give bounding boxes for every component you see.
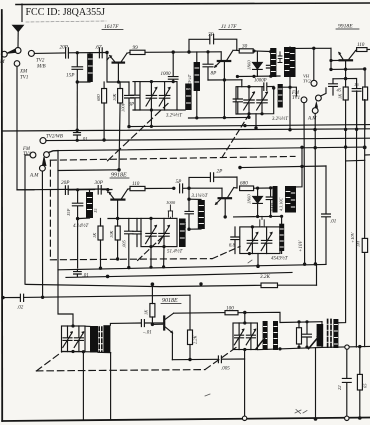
svg-text:.67: .67 (95, 45, 102, 51)
slug tuning arrow (309, 335, 320, 349)
capacitor 8P (203, 52, 217, 80)
variable capacitor (bottom-left trimmer B) (74, 326, 84, 352)
svg-text:1000: 1000 (166, 200, 176, 205)
node junction dot (106, 275, 110, 279)
capacitor .01 (mid bus) (74, 270, 89, 279)
node switch contact M (1, 51, 7, 57)
transformer bottom-right (black cores w/ slug arrow) (317, 319, 339, 348)
wire box3 to transformer top link (85, 325, 90, 327)
wire top page rule (16, 3, 370, 5)
wire R99 to Q2 base (145, 51, 221, 54)
node terminal circle (open, det out) (345, 345, 349, 349)
node junction dot (149, 217, 152, 220)
capacitor 15P (66, 53, 83, 82)
capacitor (bottom right bypass) (303, 322, 312, 347)
inductor stage2 input coil (black core) (78, 190, 93, 219)
resistor 100 (225, 306, 238, 315)
wire AGC bus with .02 cap (2, 297, 19, 299)
wire right rail D (B+ feed) (355, 91, 357, 347)
node contact VH TV2 circle (311, 80, 317, 86)
svg-text:1N60: 1N60 (247, 194, 252, 204)
node junction dot (344, 128, 347, 131)
inductor osc coil (black core, below-right of box) (177, 84, 192, 111)
inductor stage2 osc coil black bar (box right) (179, 219, 186, 248)
wire supply bus (B+) (26, 284, 317, 286)
variable capacitor (trimmer, tank A) (146, 82, 158, 110)
resistor 1K (stage2 left) (92, 219, 103, 269)
wire bias row (331, 68, 365, 70)
node junction dot (149, 266, 152, 269)
resistor (bottom right) (297, 322, 302, 347)
wire AM (right) drop to bus (314, 114, 316, 264)
variable capacitor (bottom-mid trimmer A) (234, 323, 244, 350)
wire FM contact left riser (25, 155, 30, 284)
node junction dot (99, 267, 102, 270)
node junction dot (106, 188, 109, 191)
wire .005 row to descender (244, 350, 246, 419)
wire T2 feed drop (296, 147, 302, 187)
node junction dot (344, 145, 347, 148)
node junction dot (243, 348, 246, 351)
wire FM line left drop (58, 151, 73, 326)
svg-text:110: 110 (357, 42, 365, 48)
capacitor coupling (det to 45MC box) (260, 216, 264, 227)
node junction dot (150, 108, 153, 111)
wire AM box trimmer drop (248, 114, 250, 118)
wire wiper to FM bus corner (49, 151, 59, 153)
node junction dot (151, 282, 155, 286)
svg-text:8P: 8P (211, 71, 218, 77)
wire 10.7MC secondary to .01 (110, 323, 140, 325)
node junction dot (269, 186, 272, 189)
node junction dot (76, 139, 79, 142)
node junction dot (149, 245, 152, 248)
resistor 1K (emitter) (338, 79, 349, 130)
node junction dot (314, 146, 317, 149)
wire emitter/AGC row (208, 79, 242, 81)
node junction dot (1, 296, 4, 299)
node junction dot (256, 187, 259, 190)
variable capacitor (trimmer stage2 B) (159, 218, 171, 246)
svg-text:3P: 3P (129, 103, 135, 108)
transistor Q2 (J117F) (214, 50, 237, 117)
node junction dot (329, 59, 332, 62)
node junction dot (224, 215, 227, 218)
bottom-left tuner box (62, 326, 86, 352)
node junction dot (76, 217, 79, 220)
wire TV2/WB long run (46, 138, 370, 140)
inductor input coil L1 (black core) (77, 53, 92, 82)
wire stage2 emitter row (108, 217, 141, 219)
inductor stage2 osc tank coil (black core) (189, 199, 205, 229)
resistor 680 (Q1 bias) (96, 82, 107, 140)
capacitor .67 (95, 45, 102, 58)
capacitor 2P feedback (stage2) (189, 169, 237, 189)
wire dashed gang diag to bottom-left box (36, 352, 62, 371)
node switch contact TV2/WB (mid-left) (40, 138, 46, 144)
wire gang dashed diagonal to AM box (222, 115, 249, 158)
node junction dot (116, 257, 119, 260)
node junction dot (269, 50, 272, 53)
wire stage1 emitter return (189, 116, 250, 119)
node junction dot (358, 345, 361, 348)
diode 1N60 (247, 51, 263, 76)
wire after 20P (68, 52, 107, 54)
node switch wiper contact (mid) (44, 152, 50, 158)
wire Q5 base from stage wire (189, 187, 222, 189)
capacitor 6.8 (45MC box left) (229, 227, 239, 254)
wire Q1 input riser (107, 53, 129, 83)
node junction dot (206, 50, 209, 53)
node junction dot (116, 217, 119, 220)
resistor 110 (stage2) (128, 181, 174, 191)
node junction dot (127, 266, 130, 269)
wire descender to ground (left) (82, 352, 84, 420)
transformer T2 primary (stage2, black core) (273, 186, 278, 213)
wire ganging dashed left drop (49, 160, 51, 260)
svg-text:+10V: +10V (299, 240, 304, 252)
wire 9018E base row (152, 323, 162, 325)
wire AM box drop to bus (255, 114, 257, 128)
node junction dot (195, 116, 198, 119)
wire bottom-left box bottom row (62, 352, 111, 353)
wire descender to ground (right) (110, 353, 112, 420)
wire det row (234, 215, 282, 218)
node junction dot (76, 80, 79, 83)
wire stage2 top rail (58, 169, 119, 172)
resistor 3.2K (series in B+ bus) (260, 274, 278, 288)
wire Q4 base feed riser (188, 188, 190, 199)
transformer T1 primary (black striped core) (270, 48, 276, 77)
node junction dot (199, 282, 202, 285)
node junction dot (247, 112, 250, 115)
node switch contact FM TV1 (mid) (30, 152, 36, 158)
transformer 10.7MC (black cores) (90, 325, 110, 353)
transformer T1 secondary (black striped core) (284, 47, 296, 77)
node junction dot (82, 350, 85, 353)
wire bottom row to FM switch (280, 87, 296, 96)
wire FCC label underline (faint) (26, 21, 106, 22)
capacitor 30P (series into Q4) (95, 180, 104, 194)
node junction dot (303, 263, 306, 266)
node junction dot (151, 323, 154, 326)
node switch contact A.M (mid) (40, 165, 46, 171)
node junction dot (288, 128, 291, 131)
wire box2 column drop A (150, 247, 152, 268)
svg-text:100: 100 (226, 306, 234, 312)
transistor Q3 (9918E) (331, 51, 356, 79)
node junction dot (297, 346, 300, 349)
node junction dot (269, 75, 272, 78)
svg-text:680: 680 (96, 94, 101, 101)
capacitor fixed (box2 left) (133, 218, 141, 246)
wire box4 feed riser (244, 313, 246, 324)
wire right wiper feed (321, 88, 326, 96)
node junction dot (41, 296, 44, 299)
node junction dot (238, 166, 241, 169)
wire ganging dashed bus (upper) (50, 156, 295, 160)
wire emitter node row (333, 78, 357, 87)
tuner box 45MC (240, 227, 280, 254)
wire gang diagonal to stage1 tank (108, 104, 169, 161)
capacitor 20P (AM bus) (61, 180, 70, 194)
capacitor between T1 windings (278, 52, 282, 63)
capacitor 100P (Q1 emitter bypass) (121, 82, 134, 127)
svg-text:1M: 1M (356, 241, 361, 247)
capacitor .005 (series) (218, 356, 244, 372)
svg-text:16: 16 (354, 82, 359, 87)
wire right rail A (from FM switch) (303, 103, 306, 265)
wire FM long bus (wiper run) (58, 147, 365, 151)
diode 1N60 (stage2) (247, 188, 263, 216)
wire box1 column drop (150, 110, 152, 126)
svg-text:.005: .005 (221, 367, 230, 372)
resistor 65 (bottom filter) (357, 374, 367, 390)
wire 45MC det out drop (321, 322, 323, 347)
svg-text:99: 99 (133, 45, 139, 51)
svg-text:15P: 15P (66, 73, 75, 79)
capacitor 20P (60, 45, 69, 59)
node junction dot (71, 324, 74, 327)
wire emitter row w/ .005 (172, 358, 217, 360)
slug tuning arrow (45MC out) (256, 336, 266, 349)
svg-text:.02: .02 (17, 306, 24, 311)
node junction dot (76, 188, 79, 191)
svg-text:FCC ID: J8QA355J: FCC ID: J8QA355J (26, 7, 106, 18)
bottom-mid tuner box (233, 323, 257, 350)
wire mid rail 2 (66, 273, 292, 278)
svg-text:4043¼T: 4043¼T (187, 74, 192, 90)
node junction dot (127, 125, 130, 128)
wire 7P drop joins R30 (237, 49, 239, 51)
node junction dot (172, 80, 175, 83)
capacitor .02 (series) (17, 294, 190, 310)
node junction dot (102, 138, 105, 141)
svg-text:+10V: +10V (350, 231, 355, 243)
capacitor 7P feedback with riser (189, 32, 237, 52)
node terminal circle (open, ground) (242, 416, 246, 420)
tuner box AM osc (stage1) (236, 87, 274, 115)
capacitor .01 (TV2/WB to bus) (74, 131, 88, 143)
node junction dot (236, 75, 239, 78)
capacitor 1000 (box2 riser) (166, 200, 176, 218)
node junction dot (272, 86, 275, 89)
svg-text:.01: .01 (82, 138, 88, 143)
wire descender (xfmr leg) (315, 348, 317, 419)
svg-text:3.1¼½T: 3.1¼½T (192, 194, 208, 199)
resistor 10K (Q1 bias) (112, 82, 123, 170)
svg-text:680: 680 (240, 181, 248, 187)
node junction dot (252, 75, 255, 78)
wire inner bus (stage1 ground return) (129, 125, 370, 127)
resistor 1K (9018E collector) (144, 284, 155, 324)
switch wiper blade (AM band switch) (7, 49, 16, 53)
capacitor 30P (tank, rotated label) (182, 199, 193, 229)
variable capacitor (trimmer, tank B) (159, 82, 171, 110)
node junction dot (187, 228, 190, 231)
node junction dot (278, 347, 281, 350)
resistor 99 (130, 45, 145, 55)
capacitor .005 (stage2 bypass) (122, 218, 134, 267)
wire T1 secondary top to bias node (290, 47, 331, 69)
node junction dot (363, 67, 366, 70)
wire AM band bus (17, 188, 108, 191)
resistor 2.2K (188, 330, 198, 360)
node junction dot (297, 320, 300, 323)
svg-text:A.M: A.M (29, 174, 39, 179)
svg-text:1N60: 1N60 (247, 60, 252, 70)
wire main input run (35, 52, 65, 55)
capacitor 1000 (stage2 det) (266, 188, 275, 216)
node junction dot (150, 80, 153, 83)
wire dashed gang diag to bottom-mid box (205, 348, 236, 370)
svg-text:.01: .01 (330, 220, 336, 225)
node switch wiper contact (right) (316, 95, 322, 101)
wire mid ground bus (58, 264, 326, 269)
svg-text:22: 22 (337, 385, 342, 390)
wire AM drop to B+ link (316, 264, 318, 285)
node junction dot (305, 346, 308, 349)
svg-text:110: 110 (132, 181, 140, 187)
wire AM contact down to .02 bus (41, 171, 43, 297)
node junction dot (256, 264, 260, 268)
svg-text:20P: 20P (61, 180, 70, 186)
node junction dot (187, 187, 190, 190)
wire rail link (346, 159, 365, 162)
wire AM bus cont (68, 189, 94, 191)
wire gang dashed diagonal into 45MC (212, 246, 240, 258)
capacitor .01 (45MC right) (322, 166, 337, 264)
transformer 45MC out (black striped cores) (263, 321, 278, 350)
svg-text:6.8: 6.8 (229, 244, 236, 249)
node junction dot (223, 78, 226, 81)
node junction dot (363, 146, 367, 150)
svg-text:XM: XM (19, 70, 28, 75)
svg-text:7P: 7P (208, 32, 215, 38)
node junction dot (288, 86, 291, 89)
svg-text:4.3.10C: 4.3.10C (279, 198, 284, 211)
inductor AM osc coil (black core) (278, 84, 283, 108)
inductor L2 4043 coil (black core) (194, 52, 200, 118)
svg-text:1000P: 1000P (254, 79, 267, 84)
capacitor bypass (collector) (266, 52, 275, 77)
node junction dot (172, 187, 175, 190)
wire stage2 tank drop (77, 219, 79, 268)
svg-text:15P: 15P (66, 208, 71, 216)
wire VH TV2 riser (313, 48, 315, 80)
svg-text:4543½T: 4543½T (271, 256, 289, 261)
svg-text:.01: .01 (83, 274, 89, 279)
svg-text:TV1: TV1 (20, 76, 28, 81)
resistor 30 (239, 44, 253, 54)
tuner box stage2 (141, 218, 177, 246)
svg-text:2.2K: 2.2K (193, 335, 198, 344)
transistor Q5 (stage2 out) (215, 188, 237, 217)
capacitor 16 (emitter bypass) (352, 82, 361, 129)
wire Q6 emitter drop (171, 333, 173, 360)
resistor 110 (collector) (356, 42, 370, 52)
capacitor 4.5 (emitter left) (329, 79, 342, 95)
svg-text:TV1: TV1 (292, 96, 300, 101)
node junction dot (71, 350, 74, 353)
variable capacitor (45MC trimmer B) (261, 227, 273, 254)
svg-text:30: 30 (242, 44, 248, 50)
node junction dot (313, 128, 316, 131)
node junction dot (247, 85, 250, 88)
node junction dot (172, 50, 175, 53)
capacitor .01 (Q6 base) (141, 320, 164, 336)
capacitor fixed (AM box left) (233, 87, 242, 114)
svg-text:TV2: TV2 (303, 79, 311, 84)
wire descender w/ filter cap (346, 349, 348, 416)
wire dashed bus bottom (mid) (50, 259, 212, 260)
resistor 680 (240, 181, 273, 191)
node junction dot (76, 51, 79, 54)
svg-text:1000: 1000 (161, 72, 172, 77)
svg-text:TV2/WB: TV2/WB (46, 135, 63, 140)
node junction dot (162, 245, 165, 248)
resistor (right rail E) (356, 238, 368, 252)
svg-text:45: 45 (337, 88, 342, 93)
node junction dot (358, 416, 362, 420)
wire outer box bottom (2, 418, 370, 422)
variable capacitor (bottom-mid trimmer B) (246, 323, 256, 350)
wire 30P to Q4 base (101, 189, 112, 191)
node junction dot (329, 68, 332, 71)
node junction dot (305, 320, 308, 323)
node junction dot (300, 146, 303, 149)
node junction dot (162, 265, 165, 268)
capacitor 1000 (to tank) (161, 52, 179, 82)
node junction dot (256, 215, 259, 218)
node switch contact FM TV1 (right) (301, 97, 307, 103)
node junction dot (344, 68, 347, 71)
node junction dot (251, 225, 254, 228)
node switch contact TV2 M/B (28, 50, 34, 56)
svg-text:M/B: M/B (36, 65, 46, 70)
node junction dot (243, 124, 246, 127)
switch wiper blade (right) (315, 101, 318, 108)
variable capacitor (AM trimmer B) (257, 87, 269, 114)
node terminal circle (open, ground 2) (345, 416, 349, 420)
node junction dot (243, 311, 246, 314)
node junction dot (269, 215, 272, 218)
svg-text:5P: 5P (176, 179, 183, 185)
transistor Q6 (9018E) (164, 313, 173, 333)
node junction dot (260, 112, 263, 115)
node junction dot (187, 198, 190, 201)
svg-text:M: M (0, 59, 5, 65)
node switch contact A.M (right) (312, 108, 318, 114)
node junction dot (238, 166, 241, 169)
svg-text:3.2¼½T: 3.2¼½T (166, 114, 182, 119)
tuner box stage1 (133, 82, 177, 110)
wire lower row stage1 (237, 75, 280, 78)
wire outer box top edge bus (2, 129, 370, 131)
node junction dot (254, 126, 257, 129)
variable capacitor (trimmer stage2 A) (146, 218, 158, 246)
svg-text:30P: 30P (95, 180, 104, 186)
wire 2.2K feed (189, 295, 191, 330)
node junction dot (355, 128, 358, 131)
variable capacitor (45MC trimmer A) (247, 227, 259, 254)
node junction dot (248, 252, 251, 255)
antenna symbol (13, 25, 23, 47)
transformer T2 secondary (black striped) (285, 186, 296, 213)
capacitor 5P (176, 179, 190, 193)
wire box2 column drop B (163, 247, 165, 267)
node FCC label box edge (21, 4, 23, 22)
